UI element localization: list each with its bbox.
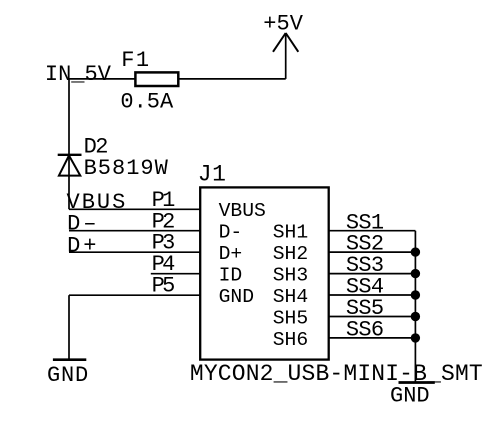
svg-text:D-: D-: [219, 222, 243, 244]
svg-text:0.5A: 0.5A: [120, 90, 174, 115]
svg-text:SH5: SH5: [273, 307, 308, 329]
svg-text:SH4: SH4: [273, 286, 308, 308]
svg-text:SH3: SH3: [273, 264, 308, 286]
svg-text:GND: GND: [47, 363, 89, 388]
svg-text:D+: D+: [67, 233, 99, 258]
svg-text:D+: D+: [219, 243, 243, 265]
svg-text:GND: GND: [390, 384, 430, 409]
svg-text:SH1: SH1: [273, 222, 308, 244]
svg-text:ID: ID: [219, 264, 243, 286]
svg-text:B5819W: B5819W: [84, 156, 169, 181]
svg-text:SH6: SH6: [273, 329, 308, 351]
svg-text:+5V: +5V: [263, 12, 303, 37]
svg-text:MYCON2_USB-MINI-B_SMT: MYCON2_USB-MINI-B_SMT: [190, 361, 483, 387]
svg-text:VBUS: VBUS: [219, 200, 266, 222]
svg-text:IN_5V: IN_5V: [45, 62, 112, 87]
svg-text:GND: GND: [219, 286, 254, 308]
svg-text:SH2: SH2: [273, 243, 308, 265]
svg-text:J1: J1: [198, 161, 227, 187]
svg-text:P5: P5: [152, 274, 175, 299]
svg-text:F1: F1: [121, 48, 150, 73]
svg-text:SS6: SS6: [346, 318, 384, 343]
